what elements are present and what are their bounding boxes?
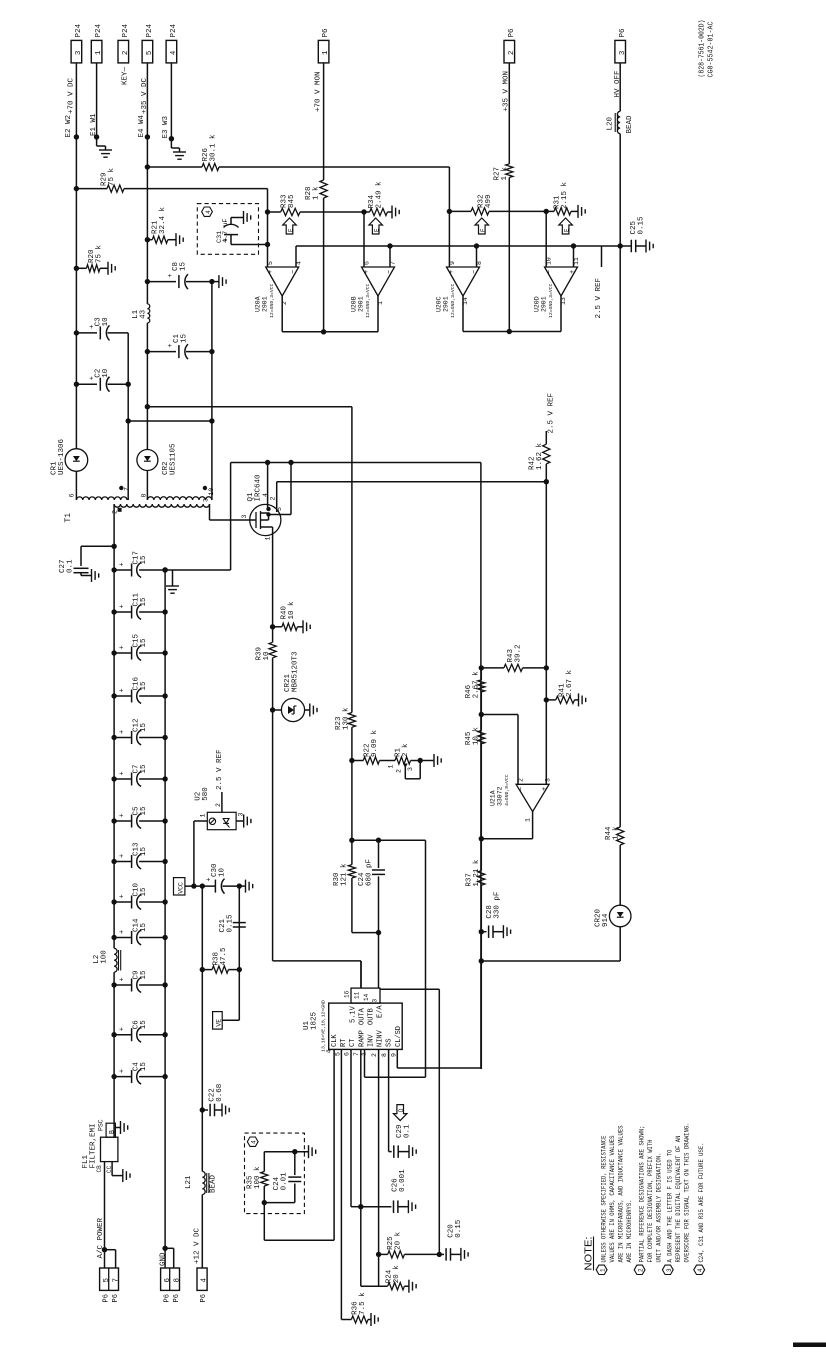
svg-text:+: +: [119, 688, 127, 692]
svg-text:32.4 k: 32.4 k: [159, 206, 167, 234]
svg-text:845: 845: [288, 194, 296, 208]
svg-text:15: 15: [140, 806, 148, 816]
svg-text:FOR COMPLETE DESIGNATION, PREF: FOR COMPLETE DESIGNATION, PREFIX WITH: [647, 1140, 655, 1263]
svg-text:4: 4: [262, 493, 269, 497]
svg-text:RT: RT: [340, 1039, 348, 1047]
svg-text:3: 3: [372, 999, 379, 1003]
svg-text:914: 914: [602, 913, 610, 927]
svg-text:680 pF: 680 pF: [366, 859, 374, 886]
svg-text:2.67 k: 2.67 k: [566, 669, 574, 697]
svg-text:CG0-5542-01-AC: CG0-5542-01-AC: [708, 22, 716, 78]
svg-text:+: +: [167, 343, 175, 347]
svg-text:UES1105: UES1105: [170, 443, 178, 475]
svg-text:15: 15: [180, 261, 188, 271]
svg-text:+: +: [167, 273, 175, 277]
svg-text:580: 580: [202, 787, 210, 801]
svg-text:15: 15: [140, 1062, 148, 1072]
svg-text:NINV: NINV: [377, 1029, 385, 1047]
svg-text:8: 8: [381, 1053, 388, 1057]
svg-text:+: +: [119, 1027, 127, 1031]
svg-text:5: 5: [276, 507, 283, 511]
svg-text:UNLESS OTHERWISE SPECIFIED, RE: UNLESS OTHERWISE SPECIFIED, RESISTANCE: [601, 1136, 609, 1263]
svg-text:+: +: [119, 562, 127, 566]
svg-text:2.5 V REF: 2.5 V REF: [548, 393, 556, 434]
svg-text:15: 15: [140, 555, 148, 565]
svg-text:P6: P6: [619, 28, 627, 38]
svg-text:+: +: [119, 977, 127, 981]
svg-text:7: 7: [124, 487, 131, 491]
svg-text:E: E: [480, 228, 487, 232]
svg-text:10: 10: [208, 488, 215, 496]
svg-text:15: 15: [140, 597, 148, 607]
svg-text:3: 3: [619, 50, 627, 55]
svg-text:ARE IN MICROHENRYS.: ARE IN MICROHENRYS.: [626, 1200, 634, 1263]
svg-text:6: 6: [164, 1278, 172, 1283]
svg-text:+: +: [119, 1069, 127, 1073]
svg-text:100 k: 100 k: [254, 1166, 262, 1189]
svg-text:13,16=VE,10,12=GND: 13,16=VE,10,12=GND: [321, 1000, 327, 1052]
svg-text:15: 15: [140, 638, 148, 648]
svg-text:+70 V DC: +70 V DC: [68, 77, 76, 114]
svg-text:12=GND,3=VCC: 12=GND,3=VCC: [450, 283, 456, 318]
svg-text:9.09 k: 9.09 k: [371, 729, 379, 757]
svg-text:3: 3: [241, 515, 248, 519]
svg-text:SS: SS: [386, 1039, 394, 1047]
svg-text:0.01: 0.01: [281, 1172, 289, 1191]
svg-text:7: 7: [353, 1052, 360, 1056]
svg-text:1: 1: [200, 814, 207, 818]
svg-text:1825: 1825: [311, 1011, 319, 1030]
svg-text:VE: VE: [216, 1019, 223, 1027]
svg-text:MBR5120T3: MBR5120T3: [292, 651, 300, 692]
svg-text:CB: CB: [96, 1165, 103, 1173]
svg-text:8: 8: [141, 494, 148, 498]
svg-text:1: 1: [265, 537, 272, 541]
svg-text:REPRESENT THE DIGITAL EQUIVALE: REPRESENT THE DIGITAL EQUIVALENT OF AN: [675, 1136, 683, 1263]
svg-text:P6: P6: [200, 1294, 208, 1302]
svg-text:P6: P6: [103, 1294, 111, 1302]
svg-text:30.1 k: 30.1 k: [210, 134, 218, 162]
svg-text:P24: P24: [95, 23, 103, 37]
svg-text:+: +: [363, 270, 371, 274]
svg-text:0.15: 0.15: [455, 1219, 463, 1238]
svg-text:20 k: 20 k: [395, 1231, 403, 1250]
svg-text:+: +: [119, 813, 127, 817]
svg-text:+: +: [119, 730, 127, 734]
svg-text:ARE IN MICROFARADS, AND INDUCT: ARE IN MICROFARADS, AND INDUCTANCE VALUE…: [618, 1126, 626, 1263]
svg-text:2: 2: [122, 51, 130, 56]
svg-text:+: +: [119, 604, 127, 608]
svg-text:CLK: CLK: [331, 1034, 339, 1047]
svg-text:4: 4: [697, 1268, 704, 1272]
svg-text:2.15 k: 2.15 k: [561, 181, 569, 209]
svg-text:7: 7: [112, 1278, 120, 1283]
svg-text:1: 1: [525, 818, 532, 822]
svg-text:5: 5: [335, 1052, 342, 1056]
svg-text:2.67 k: 2.67 k: [473, 671, 481, 699]
svg-text:VALUES ARE IN OHMS, CAPACITANC: VALUES ARE IN OHMS, CAPACITANCE VALUES: [609, 1136, 617, 1263]
svg-text:−: −: [290, 270, 298, 274]
svg-text:P24: P24: [170, 23, 178, 37]
svg-text:0.1: 0.1: [67, 559, 75, 573]
svg-text:12=GND,3=VCC: 12=GND,3=VCC: [365, 283, 371, 318]
svg-text:75 k: 75 k: [108, 167, 116, 186]
svg-text:0.68: 0.68: [216, 1084, 224, 1102]
svg-text:5.1V: 5.1V: [350, 1005, 358, 1023]
svg-text:UES-1306: UES-1306: [58, 438, 66, 475]
svg-text:+: +: [223, 237, 231, 241]
svg-text:6: 6: [69, 494, 76, 498]
svg-text:1.21 k: 1.21 k: [473, 859, 481, 887]
svg-text:U21A: U21A: [490, 790, 497, 806]
svg-text:E4 W4: E4 W4: [138, 114, 146, 137]
svg-text:11: 11: [573, 257, 580, 265]
svg-text:E2 W2: E2 W2: [65, 115, 73, 138]
svg-text:+: +: [267, 270, 275, 274]
svg-text:L20: L20: [607, 116, 615, 130]
svg-text:E/A: E/A: [377, 1005, 385, 1018]
svg-text:15: 15: [140, 722, 148, 732]
svg-text:4: 4: [326, 1050, 333, 1054]
svg-text:P6: P6: [508, 28, 516, 38]
svg-text:4: 4: [170, 50, 178, 55]
svg-text:15: 15: [140, 887, 148, 897]
svg-text:E3 W3: E3 W3: [162, 115, 170, 138]
svg-text:4: 4: [201, 1278, 209, 1283]
svg-text:INV: INV: [368, 1034, 376, 1047]
svg-text:4: 4: [205, 210, 212, 214]
svg-text:15: 15: [140, 970, 148, 980]
svg-text:15: 15: [140, 681, 148, 691]
svg-text:OUTB: OUTB: [368, 1008, 376, 1025]
svg-text:4: 4: [251, 1140, 258, 1144]
svg-text:14: 14: [363, 993, 370, 1001]
svg-text:6: 6: [344, 1052, 351, 1056]
svg-text:L21: L21: [185, 1175, 193, 1189]
svg-text:U20D: U20D: [534, 296, 541, 312]
svg-text:KEY—: KEY—: [121, 66, 129, 85]
svg-text:15: 15: [140, 764, 148, 774]
svg-text:A DASH AND THE LETTER F IS USE: A DASH AND THE LETTER F IS USED TO: [667, 1150, 675, 1263]
svg-text:+35 V DC: +35 V DC: [141, 77, 149, 114]
svg-text:−: −: [471, 270, 479, 274]
svg-text:NOTE:: NOTE:: [583, 1237, 595, 1271]
svg-text:9: 9: [449, 261, 456, 265]
svg-text:9: 9: [391, 1053, 398, 1057]
svg-text:+: +: [206, 877, 214, 881]
svg-text:RAMP: RAMP: [359, 1030, 367, 1047]
svg-text:1: 1: [600, 1268, 607, 1272]
svg-text:2901: 2901: [358, 296, 365, 312]
svg-text:+12 V DC: +12 V DC: [194, 1227, 202, 1264]
svg-text:GND: GND: [159, 1252, 167, 1266]
svg-text:A/C POWER: A/C POWER: [97, 1217, 105, 1258]
svg-text:75 k: 75 k: [96, 244, 104, 263]
svg-text:1 k: 1 k: [313, 186, 321, 200]
svg-text:+70 V MON: +70 V MON: [314, 71, 322, 112]
svg-text:2: 2: [518, 778, 525, 782]
svg-text:1 k: 1 k: [612, 826, 620, 840]
svg-text:−: −: [546, 270, 554, 274]
svg-text:+: +: [119, 645, 127, 649]
svg-text:0.001: 0.001: [399, 1169, 407, 1192]
svg-text:P6: P6: [322, 28, 330, 38]
svg-text:E1 W1: E1 W1: [90, 113, 98, 136]
svg-text:P24: P24: [75, 23, 83, 37]
svg-text:+: +: [119, 894, 127, 898]
svg-text:100: 100: [101, 950, 109, 964]
svg-text:4: 4: [296, 261, 303, 265]
svg-text:3: 3: [407, 767, 414, 771]
svg-text:OUTA: OUTA: [359, 1007, 367, 1025]
svg-text:1: 1: [322, 50, 330, 55]
svg-text:PARTIAL REFERENCE DESIGNATIONS: PARTIAL REFERENCE DESIGNATIONS ARE SHOWN…: [639, 1126, 647, 1263]
svg-text:330 pF: 330 pF: [494, 892, 502, 919]
svg-text:B: B: [109, 1130, 116, 1134]
svg-text:(828-7561-002D): (828-7561-002D): [699, 20, 707, 78]
svg-text:39.2: 39.2: [515, 644, 523, 662]
svg-text:BEAD: BEAD: [210, 1174, 218, 1193]
svg-text:10: 10: [102, 317, 110, 327]
svg-text:FILTER,EMI: FILTER,EMI: [90, 1123, 98, 1168]
svg-text:15: 15: [140, 922, 148, 932]
svg-text:15: 15: [140, 1020, 148, 1030]
svg-text:15: 15: [140, 846, 148, 856]
svg-text:47.5: 47.5: [220, 947, 228, 966]
svg-text:5: 5: [146, 50, 154, 55]
svg-text:3: 3: [666, 1268, 673, 1272]
svg-text:CT: CT: [349, 1039, 357, 1047]
svg-text:+: +: [541, 787, 549, 791]
svg-text:499: 499: [485, 194, 493, 208]
svg-text:7.5 k: 7.5 k: [359, 1292, 367, 1315]
svg-text:10: 10: [546, 257, 553, 265]
svg-text:10: 10: [219, 867, 227, 877]
svg-text:+: +: [448, 270, 456, 274]
svg-text:CL/SD: CL/SD: [395, 1026, 403, 1047]
svg-text:T1: T1: [64, 513, 73, 523]
svg-text:130 k: 130 k: [343, 707, 351, 730]
svg-text:1: 1: [388, 765, 395, 769]
svg-text:3: 3: [75, 50, 83, 55]
svg-text:7: 7: [390, 261, 397, 265]
svg-text:10: 10: [102, 368, 110, 378]
svg-text:15: 15: [181, 333, 189, 343]
svg-text:BEAD: BEAD: [626, 115, 634, 134]
svg-text:2901: 2901: [262, 296, 269, 312]
svg-text:+: +: [119, 854, 127, 858]
svg-text:43: 43: [140, 309, 148, 319]
svg-text:2: 2: [215, 803, 222, 807]
svg-text:2: 2: [371, 1053, 378, 1057]
svg-text:33072: 33072: [497, 786, 504, 806]
svg-text:4=GND,8=VCC: 4=GND,8=VCC: [504, 774, 510, 806]
svg-text:1: 1: [95, 50, 103, 55]
svg-text:C24, C31 AND R35 ARE FOR FUTUR: C24, C31 AND R35 ARE FOR FUTURE USE.: [698, 1143, 706, 1263]
svg-text:5: 5: [267, 261, 274, 265]
svg-text:2901: 2901: [541, 296, 548, 312]
svg-text:2 k: 2 k: [402, 743, 410, 757]
svg-text:1.62 k: 1.62 k: [536, 442, 544, 470]
svg-text:12=GND,3=VCC: 12=GND,3=VCC: [269, 283, 275, 318]
svg-text:−: −: [386, 270, 394, 274]
svg-text:3: 3: [545, 778, 552, 782]
svg-text:+: +: [569, 270, 577, 274]
svg-text:P24: P24: [122, 23, 130, 37]
svg-text:2.5 V REF: 2.5 V REF: [216, 749, 224, 790]
svg-text:2.5 V REF: 2.5 V REF: [595, 278, 603, 319]
svg-text:10 k: 10 k: [288, 601, 296, 620]
svg-text:U20C: U20C: [436, 296, 443, 312]
svg-text:10: 10: [263, 651, 271, 661]
svg-text:+: +: [119, 771, 127, 775]
svg-text:3: 3: [203, 498, 210, 502]
svg-text:8: 8: [173, 1278, 181, 1283]
svg-text:12=GND,3=VCC: 12=GND,3=VCC: [548, 283, 554, 318]
svg-text:5: 5: [103, 1278, 111, 1283]
svg-text:E: E: [288, 228, 295, 232]
svg-text:E: E: [374, 228, 381, 232]
svg-text:11: 11: [354, 991, 361, 999]
svg-text:8: 8: [476, 261, 483, 265]
svg-text:2: 2: [508, 51, 516, 56]
svg-text:P6: P6: [164, 1294, 172, 1302]
svg-text:0.15: 0.15: [227, 914, 235, 933]
svg-text:PSC: PSC: [98, 1119, 105, 1131]
svg-text:2: 2: [270, 497, 277, 501]
svg-text:1 k: 1 k: [501, 166, 509, 180]
svg-text:P24: P24: [146, 23, 154, 37]
svg-text:E: E: [564, 228, 571, 232]
svg-text:121 k: 121 k: [341, 863, 349, 886]
svg-text:U20A: U20A: [255, 296, 262, 312]
svg-text:−: −: [518, 787, 526, 791]
svg-text:+: +: [119, 930, 127, 934]
svg-text:OVERSCORE FOR SIGNAL TEXT ON T: OVERSCORE FOR SIGNAL TEXT ON THIS DRAWIN…: [684, 1123, 692, 1263]
svg-text:16: 16: [344, 990, 351, 998]
svg-text:2: 2: [638, 1268, 645, 1272]
svg-text:10 k: 10 k: [473, 727, 481, 746]
svg-text:0.15: 0.15: [637, 216, 645, 235]
svg-text:VCC: VCC: [178, 882, 185, 894]
svg-text:2.49 k: 2.49 k: [376, 181, 384, 209]
svg-text:P6: P6: [173, 1294, 181, 1302]
svg-text:6: 6: [364, 261, 371, 265]
svg-text:UNIT AND/OR ASSEMBLY DESIGNATI: UNIT AND/OR ASSEMBLY DESIGNATION.: [656, 1153, 664, 1263]
svg-text:2: 2: [396, 769, 403, 773]
svg-text:2: 2: [112, 510, 119, 514]
svg-text:U20B: U20B: [351, 296, 358, 312]
svg-text:20 k: 20 k: [393, 1265, 401, 1284]
svg-text:2901: 2901: [443, 296, 450, 312]
svg-text:P6: P6: [112, 1294, 120, 1302]
svg-text:D: D: [398, 1108, 405, 1112]
svg-text:0.1: 0.1: [404, 1124, 412, 1138]
